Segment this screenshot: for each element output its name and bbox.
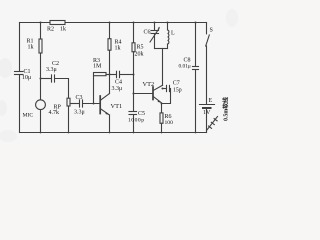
switch S: [206, 23, 210, 104]
svg-text:20k: 20k: [135, 52, 144, 58]
wire R1 branch top: [40, 23, 42, 40]
wire C5 to ground: [133, 115, 135, 133]
microphone MIC: [36, 100, 46, 110]
antenna wire 0.5m: [207, 117, 218, 131]
svg-text:C5: C5: [138, 111, 145, 117]
svg-text:VT1: VT1: [111, 103, 123, 110]
wire VT2 base: [134, 93, 153, 95]
svg-text:VT2: VT2: [143, 81, 155, 88]
junction MIC C2 node: [40, 78, 42, 80]
wire RP wiper: [71, 103, 80, 105]
resistor R6: [160, 113, 163, 123]
wire C7 from collector: [163, 88, 167, 90]
junction VT2 base node: [133, 93, 135, 95]
resistor R5: [132, 43, 135, 52]
junction R4 top rail: [109, 22, 111, 24]
junction R1 top rail: [40, 22, 42, 24]
transistor VT2: [153, 85, 163, 103]
svg-text:1k: 1k: [28, 45, 34, 51]
wire MIC to ground: [40, 110, 42, 133]
svg-text:C4: C4: [115, 80, 122, 86]
junction C5 ground: [133, 132, 135, 134]
svg-text:R5: R5: [137, 45, 144, 51]
svg-text:10μ: 10μ: [22, 75, 31, 81]
transistor VT1: [100, 94, 109, 116]
svg-text:E: E: [209, 98, 213, 104]
wire C4 to R5 line: [120, 74, 134, 76]
svg-text:1k: 1k: [115, 46, 121, 52]
potentiometer RP: [67, 98, 70, 106]
wire R3 to collector node: [106, 74, 116, 76]
wire R1 to MIC: [40, 53, 42, 100]
wire R4 to VT1 collector: [109, 50, 111, 93]
wire R5 branch top: [133, 23, 135, 43]
wire R6 to ground: [161, 123, 163, 132]
junction R3 VT1 base node: [93, 103, 95, 105]
battery E: [200, 105, 215, 133]
svg-text:4.7k: 4.7k: [49, 110, 60, 116]
svg-text:1V: 1V: [203, 110, 211, 116]
svg-text:1k: 1k: [60, 27, 66, 33]
junction C4 R5 node: [133, 74, 135, 76]
svg-text:C7: C7: [173, 81, 180, 87]
wire top rail left segment: [20, 22, 51, 24]
wire RP to ground: [68, 106, 70, 133]
svg-text:C6: C6: [144, 30, 151, 36]
wire C2 right to RP: [55, 79, 69, 99]
junction C6 top rail: [154, 22, 156, 24]
junction C8 top rail: [195, 22, 197, 24]
junction dots: [40, 22, 197, 134]
wire C2 left: [41, 78, 52, 80]
svg-text:100: 100: [165, 120, 174, 126]
svg-text:1000p: 1000p: [128, 118, 144, 124]
svg-text:S: S: [210, 28, 213, 34]
wire VT2 collector up to tank: [162, 49, 164, 86]
svg-text:3.3μ: 3.3μ: [74, 110, 85, 116]
capacitor C4: [117, 71, 120, 77]
wire R5 to VT2 base node: [133, 52, 135, 111]
svg-text:3.3μ: 3.3μ: [46, 67, 57, 73]
junction VT1 collector node: [109, 74, 111, 76]
wire bottom rail: [20, 132, 207, 134]
svg-text:0.01μ: 0.01μ: [179, 64, 191, 70]
junction VT1 emitter ground: [109, 132, 111, 134]
capacitor C8: [193, 67, 199, 70]
wire R3 drop to base: [93, 76, 95, 104]
svg-text:R2: R2: [47, 27, 54, 33]
junction MIC ground: [40, 132, 42, 134]
wire VT1 emitter to ground: [109, 115, 111, 133]
junction VT2 emitter node: [161, 103, 163, 105]
junction R6 ground: [161, 132, 163, 134]
resistor R2: [50, 21, 65, 25]
junction R5 top rail: [133, 22, 135, 24]
resistor R3: [94, 73, 107, 76]
wire top rail right segment: [65, 22, 207, 24]
svg-text:L: L: [171, 31, 175, 37]
LC tank bottom bar: [155, 48, 168, 50]
resistor R1: [39, 39, 42, 53]
scan smudges: [0, 9, 238, 142]
capacitor C7: [167, 85, 170, 91]
wire left rail upper: [19, 23, 21, 72]
capacitor C5: [129, 112, 137, 115]
wire C8 to ground: [195, 70, 197, 133]
resistor R4: [108, 39, 111, 51]
wire left rail lower: [19, 75, 21, 133]
capacitor C2: [52, 75, 55, 82]
wire R6 top: [161, 104, 163, 113]
wire R4 branch top: [109, 23, 111, 39]
svg-text:0.5m软线: 0.5m软线: [222, 97, 230, 121]
svg-text:MIC: MIC: [23, 113, 34, 119]
trimmer capacitor C6: [150, 23, 160, 49]
svg-text:15p: 15p: [173, 88, 182, 94]
svg-text:1M: 1M: [93, 64, 102, 70]
capacitor C3: [80, 100, 83, 107]
svg-text:C3: C3: [76, 95, 83, 101]
junction L top rail: [167, 22, 169, 24]
wire C8 branch top: [195, 23, 197, 67]
junction VT2 collector C7: [162, 88, 164, 90]
junction C8 ground: [195, 132, 197, 134]
capacitor C1: [15, 72, 24, 75]
wire C3 to VT1 base: [83, 103, 100, 105]
wire C7 to emitter node: [162, 89, 171, 104]
junction RP ground: [68, 132, 70, 134]
inductor L: [168, 23, 169, 49]
svg-text:3.3μ: 3.3μ: [112, 86, 123, 92]
